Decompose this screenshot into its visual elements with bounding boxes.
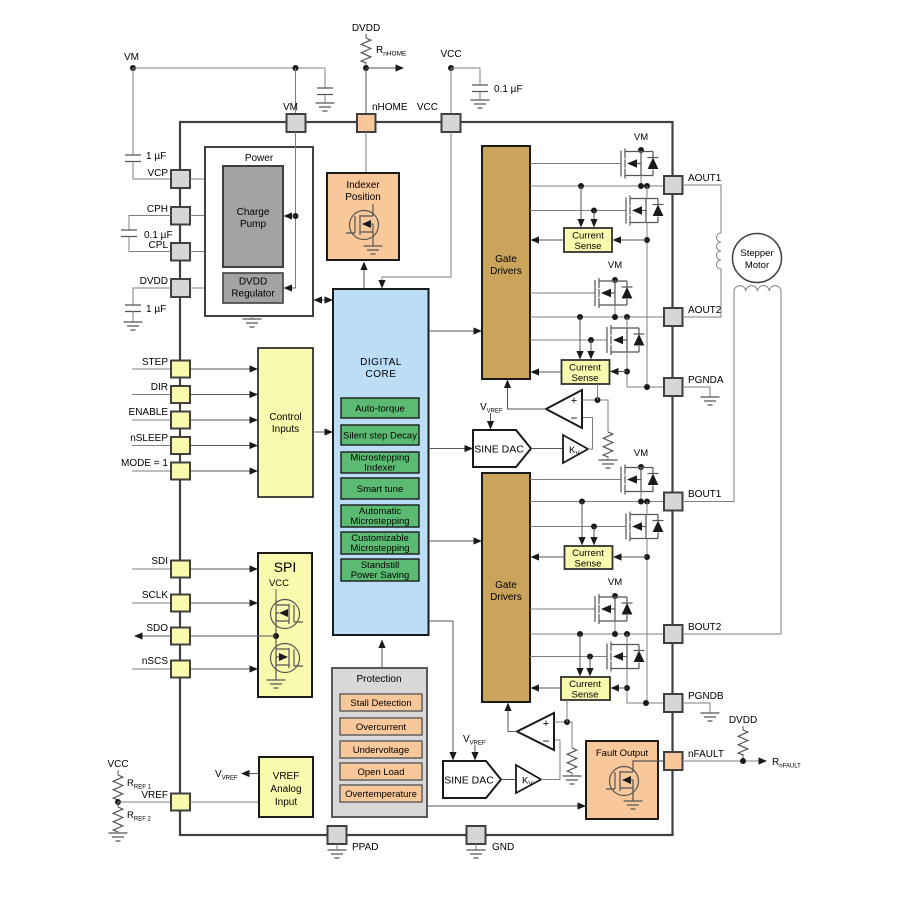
wire SCLK to SPI xyxy=(190,599,258,606)
wire comparator B plus node xyxy=(554,722,572,748)
svg-text:BOUT2: BOUT2 xyxy=(688,622,722,633)
wire gate B1 high xyxy=(530,479,621,481)
transistor indexer MOSFET xyxy=(346,204,379,246)
pin VCP xyxy=(171,170,190,188)
wire AOUT2 rail xyxy=(530,316,664,318)
current sense B2 block xyxy=(561,677,610,701)
node VM (bridge B2) xyxy=(608,577,622,599)
svg-text:DVDD: DVDD xyxy=(140,276,168,287)
transistor A2 low-side with body diode xyxy=(607,325,645,355)
svg-text:Pump: Pump xyxy=(240,219,267,230)
current sense B1 block xyxy=(565,546,613,570)
capacitor 1 uF (DVDD) xyxy=(125,304,166,322)
junction gate A2 low sense tap xyxy=(588,337,594,343)
junction PGNDB rail xyxy=(643,700,649,706)
wire STEP to control inputs xyxy=(190,365,258,372)
svg-text:Control: Control xyxy=(269,412,301,423)
svg-text:BOUT1: BOUT1 xyxy=(688,489,722,500)
wire winding A to AOUT2 xyxy=(683,269,722,317)
svg-text:Power: Power xyxy=(245,153,274,164)
wire gate B1 low xyxy=(530,526,626,528)
pin nSLEEP xyxy=(132,437,190,454)
svg-text:Stall Detection: Stall Detection xyxy=(350,698,411,709)
block Open Load xyxy=(340,763,422,780)
wire AOUT1 to motor winding A xyxy=(683,185,722,233)
ground GND pin xyxy=(467,844,486,858)
wire sense tap AOUT2 into CS-A2 xyxy=(576,317,583,360)
node VM (top-left supply) xyxy=(124,52,139,71)
transistor SPI low-side MOSFET xyxy=(271,644,304,681)
control inputs block xyxy=(258,348,313,497)
wire arrow VM into regulator xyxy=(284,284,296,291)
ground for VM bypass cap xyxy=(316,103,335,111)
wire current sense A2 to comparator plus xyxy=(597,384,599,400)
wire ENABLE to control inputs xyxy=(190,416,258,423)
wire protection to core (arrow up) xyxy=(378,640,385,669)
pin GND xyxy=(467,826,515,853)
ground PGNDA xyxy=(683,387,720,405)
junction plus node A xyxy=(595,397,601,403)
svg-text:VM: VM xyxy=(634,448,648,459)
wire sense tap BOUT1 into CS-B1 xyxy=(578,502,585,546)
svg-text:CPH: CPH xyxy=(147,204,168,215)
svg-text:Position: Position xyxy=(345,192,381,203)
junction VREF node xyxy=(115,799,121,805)
ground DVDD cap xyxy=(124,322,143,330)
svg-text:nHOME: nHOME xyxy=(372,102,408,113)
wire sense tap gate into CS-A1 xyxy=(590,211,597,228)
pin DVDD xyxy=(171,279,190,297)
svg-text:Motor: Motor xyxy=(745,260,769,271)
svg-text:nFAULT: nFAULT xyxy=(688,749,724,760)
wire B2 low drain to BOUT2 xyxy=(626,634,628,645)
wire VVREF into DAC A xyxy=(487,413,494,430)
transistor B2 high-side with body diode xyxy=(595,594,633,624)
transistor A1 high-side with body diode xyxy=(621,149,659,179)
wire VM to VM pin xyxy=(295,68,297,114)
pin STEP xyxy=(132,361,190,378)
wire current sense A2 to gate drivers xyxy=(531,368,562,375)
pin nFAULT xyxy=(664,749,724,770)
wire comparator A output to gate drivers A xyxy=(504,380,546,410)
comparator A xyxy=(546,390,582,428)
ground RREF2 xyxy=(109,833,128,841)
svg-text:DIR: DIR xyxy=(151,382,168,393)
wire VVREF into DAC B xyxy=(471,745,478,761)
svg-text:VCC: VCC xyxy=(107,759,128,770)
wire VCP to charge pump xyxy=(190,178,223,180)
wire core to gate drivers B xyxy=(429,537,483,544)
pin VM xyxy=(283,102,306,132)
pin PGNDB xyxy=(664,691,724,712)
svg-text:Overcurrent: Overcurrent xyxy=(356,722,407,733)
svg-text:Undervoltage: Undervoltage xyxy=(353,745,410,756)
svg-text:DVDD: DVDD xyxy=(239,277,267,288)
node VM (bridge A1) xyxy=(634,132,648,153)
wire DAC A to Kv A xyxy=(531,448,563,450)
wire core to SINE DAC B xyxy=(429,621,457,761)
svg-text:SPI: SPI xyxy=(274,559,297,575)
wire sense tap AOUT1 into CS-A1 xyxy=(577,186,584,228)
wire VM rail into power block xyxy=(295,132,297,288)
wire BOUT1 rail xyxy=(530,501,664,503)
charge pump block xyxy=(223,166,283,267)
transistor B1 low-side with body diode xyxy=(626,512,664,542)
block Automatic Microstepping xyxy=(341,505,419,527)
transistor A1 low-side with body diode xyxy=(626,196,664,226)
resistor DAC B reference xyxy=(567,748,577,776)
junction SDO node xyxy=(273,633,279,639)
wire VVREF output arrow xyxy=(215,769,259,782)
ground for VCC cap xyxy=(471,100,490,108)
wire current sense B1 to gate drivers xyxy=(531,553,565,560)
svg-text:ENABLE: ENABLE xyxy=(129,407,169,418)
svg-text:DVDD: DVDD xyxy=(729,715,757,726)
svg-text:Indexer: Indexer xyxy=(364,463,396,474)
svg-text:SCLK: SCLK xyxy=(142,590,168,601)
wire VREF pin to VREF analog input xyxy=(190,801,259,803)
current sense A2 block xyxy=(562,360,610,384)
junction BOUT1 dots xyxy=(579,499,650,505)
wire B2 low source down to PGNDB xyxy=(627,669,664,704)
svg-text:Stepper: Stepper xyxy=(740,248,773,259)
wire Kv B to comparator minus xyxy=(541,740,560,780)
wire A2 low drain to AOUT2 xyxy=(626,317,628,328)
svg-text:VM: VM xyxy=(124,52,139,63)
wire A2 high source to AOUT2 xyxy=(614,305,616,317)
ground PGNDB xyxy=(683,703,720,721)
svg-text:1 µF: 1 µF xyxy=(146,151,166,162)
junction gate B2 low sense tap xyxy=(587,654,593,660)
svg-text:Open Load: Open Load xyxy=(357,767,404,778)
svg-text:Protection: Protection xyxy=(356,674,401,685)
block Stall Detection xyxy=(340,694,422,711)
wire current sense A1 to gate drivers xyxy=(531,236,565,243)
fault output block xyxy=(586,741,658,819)
wire A1 low drain to AOUT1 xyxy=(646,186,648,199)
wire gate A2 low xyxy=(530,339,607,341)
current sense A1 block xyxy=(564,228,612,252)
wire core to SINE DAC A xyxy=(429,445,474,452)
wire B1 source into CS-B1 right xyxy=(613,553,647,560)
wire gate A1 high xyxy=(530,163,621,165)
stepper motor xyxy=(733,234,782,283)
wire flying cap to CPL xyxy=(129,237,171,252)
resistor RnHOME xyxy=(361,34,407,68)
svg-text:VM: VM xyxy=(608,260,622,271)
transistor B2 low-side with body diode xyxy=(607,642,645,672)
node VM (bridge A2) xyxy=(608,260,622,283)
pin BOUT2 xyxy=(664,622,722,643)
svg-text:Sense: Sense xyxy=(575,241,602,252)
pin AOUT1 xyxy=(664,173,722,194)
svg-text:0.1 µF: 0.1 µF xyxy=(494,84,523,95)
ground fault MOSFET xyxy=(624,801,643,809)
transistor fault MOSFET xyxy=(606,761,664,801)
svg-text:SDO: SDO xyxy=(146,623,168,634)
transistor SPI high-side MOSFET xyxy=(271,600,304,650)
svg-text:VCC: VCC xyxy=(417,102,438,113)
junction nHOME node xyxy=(363,65,369,71)
wire nFAULT output xyxy=(683,757,802,770)
pin SCLK xyxy=(132,595,190,612)
block Overcurrent xyxy=(340,718,422,735)
wire SDI to SPI xyxy=(190,565,258,572)
svg-text:−: − xyxy=(570,411,577,425)
svg-text:+: + xyxy=(543,718,549,730)
gate drivers B block xyxy=(482,473,530,702)
wire protection to fault output xyxy=(427,802,586,809)
svg-text:CPL: CPL xyxy=(149,240,169,251)
transistor A2 high-side with body diode xyxy=(595,278,633,308)
Power block container xyxy=(205,147,313,316)
svg-text:−: − xyxy=(542,734,549,748)
svg-text:nSLEEP: nSLEEP xyxy=(130,433,168,444)
svg-text:Gate: Gate xyxy=(495,254,517,265)
SINE DAC B xyxy=(443,761,501,798)
svg-text:Analog: Analog xyxy=(270,784,301,795)
wire winding B to BOUT2 xyxy=(683,291,782,634)
digital core block xyxy=(333,289,429,635)
svg-text:SINE DAC: SINE DAC xyxy=(474,444,524,456)
wire comparator B output to gate drivers B xyxy=(504,703,517,732)
pin PGNDA xyxy=(664,375,724,396)
ground PPAD xyxy=(328,844,347,858)
svg-text:Microstepping: Microstepping xyxy=(350,543,409,554)
wire AOUT1 rail xyxy=(530,185,664,187)
svg-text:SDI: SDI xyxy=(151,556,168,567)
wire gate A2 high xyxy=(530,292,595,294)
svg-text:Inputs: Inputs xyxy=(272,424,299,435)
pin nSCS xyxy=(132,661,190,678)
block Smart tune xyxy=(341,478,419,499)
wire A1 high source to AOUT1 xyxy=(640,176,642,187)
indexer position block xyxy=(327,173,399,260)
wire BOUT1 to motor winding B xyxy=(683,291,735,502)
junction VM above VM pin xyxy=(293,65,299,71)
svg-text:VREF: VREF xyxy=(141,790,168,801)
comparator B xyxy=(517,713,554,750)
wire nHOME pin to indexer xyxy=(365,132,367,173)
junction A2 source sense xyxy=(624,369,630,375)
wire CPH to charge pump xyxy=(190,215,223,217)
svg-text:CORE: CORE xyxy=(366,369,397,380)
svg-text:Sense: Sense xyxy=(575,559,602,570)
junction B2 source sense xyxy=(624,685,630,691)
wire sense tap gate into CS-B2 xyxy=(586,657,593,677)
wire A1 source into CS-A1 right xyxy=(613,236,648,243)
block Auto-torque xyxy=(341,398,419,418)
ground power block xyxy=(243,316,262,327)
resistor DAC A reference xyxy=(603,432,613,460)
wire comparator A plus node xyxy=(582,400,608,432)
svg-text:Drivers: Drivers xyxy=(490,266,522,277)
chip boundary xyxy=(180,122,673,835)
resistor RREF1 xyxy=(113,770,151,802)
junction VM to charge pump xyxy=(293,213,299,219)
junction gate B1 low sense tap xyxy=(591,524,597,530)
svg-text:AOUT1: AOUT1 xyxy=(688,173,722,184)
block Silent step Decay xyxy=(341,425,419,445)
wire gate A1 low xyxy=(530,210,626,212)
node VCC (top) xyxy=(440,49,461,71)
wire BOUT2 rail xyxy=(530,633,664,635)
block Customizable Microstepping xyxy=(341,532,419,554)
svg-text:Charge: Charge xyxy=(237,207,270,218)
ground resistor B xyxy=(563,776,582,784)
junction AOUT1 dots xyxy=(578,183,650,189)
svg-text:VM: VM xyxy=(283,102,298,113)
wire nHOME node to pin xyxy=(365,68,367,114)
svg-text:Power Saving: Power Saving xyxy=(351,570,410,581)
wire VCC pin down to digital core xyxy=(378,132,451,289)
SINE DAC A xyxy=(473,430,531,467)
VREF analog input block xyxy=(259,757,313,817)
wire VM to VCP cap xyxy=(132,68,134,155)
svg-text:1 µF: 1 µF xyxy=(146,304,166,315)
block Microstepping Indexer xyxy=(341,452,419,474)
svg-text:Input: Input xyxy=(275,797,297,808)
wire SDO output arrow left xyxy=(134,632,276,639)
node VM (bridge B1) xyxy=(634,448,648,470)
svg-text:DIGITAL: DIGITAL xyxy=(360,357,402,368)
svg-text:PPAD: PPAD xyxy=(352,842,379,853)
svg-text:Sense: Sense xyxy=(572,690,599,701)
svg-text:MODE = 1: MODE = 1 xyxy=(121,458,168,469)
svg-text:nSCS: nSCS xyxy=(142,656,168,667)
pin CPL xyxy=(171,243,190,261)
resistor RnFAULT pull-up xyxy=(738,726,748,761)
svg-text:Current: Current xyxy=(569,679,601,690)
gate drivers A block xyxy=(482,146,530,379)
wire A2 low source down to PGNDA xyxy=(627,352,664,387)
amplifier Kv A xyxy=(563,435,588,463)
svg-text:VCC: VCC xyxy=(269,578,289,589)
wire B1 high source to BOUT1 xyxy=(640,492,642,502)
svg-text:VCC: VCC xyxy=(440,49,461,60)
ground SPI xyxy=(267,680,286,688)
pin BOUT1 xyxy=(664,489,722,511)
wire VCC to pin xyxy=(450,68,452,114)
svg-text:+: + xyxy=(571,395,577,407)
wire CPH to flying cap xyxy=(129,216,171,231)
wire arrow VM into charge pump xyxy=(284,212,296,219)
DVDD regulator block xyxy=(223,273,283,303)
pin nHOME xyxy=(357,102,408,132)
svg-text:GND: GND xyxy=(492,842,514,853)
pin MODE xyxy=(132,463,190,480)
svg-text:STEP: STEP xyxy=(142,357,168,368)
capacitor 1 uF (VCP) xyxy=(125,151,171,179)
svg-text:Regulator: Regulator xyxy=(231,289,275,300)
pin VREF xyxy=(171,794,190,811)
wire core to gate drivers A xyxy=(429,327,483,334)
inductor winding A xyxy=(717,233,722,269)
wire nSLEEP to control inputs xyxy=(190,442,258,449)
junction gate A1 low sense tap xyxy=(591,208,597,214)
transistor B1 high-side with body diode xyxy=(621,465,659,495)
svg-text:VM: VM xyxy=(634,132,648,143)
capacitor 0.1 uF (VCC bypass) xyxy=(451,68,523,100)
wire A2 source into CS-A2 right xyxy=(610,368,627,375)
wire current sense B2 to comparator plus xyxy=(566,700,568,722)
protection block xyxy=(332,668,427,817)
wire Kv A to comparator minus xyxy=(582,418,593,450)
wire current sense B2 to gate drivers xyxy=(531,684,562,691)
pin AOUT2 xyxy=(664,305,722,326)
pin PPAD xyxy=(328,826,379,853)
svg-text:PGNDA: PGNDA xyxy=(688,375,724,386)
junction PGNDA rail xyxy=(644,384,650,390)
wire nHOME stub arrow right xyxy=(366,64,404,71)
junction BOUT2 dots xyxy=(577,631,630,637)
junction plus node B xyxy=(564,719,570,725)
svg-text:Auto-torque: Auto-torque xyxy=(355,404,405,415)
wire sense tap gate into CS-B1 xyxy=(590,527,597,546)
wire SPI VCC rail xyxy=(275,589,277,600)
wire VREF node to pin xyxy=(118,801,171,803)
block Standstill Power Saving xyxy=(341,559,419,581)
svg-text:DVDD: DVDD xyxy=(352,23,380,34)
wire DVDD to 1uF cap xyxy=(133,288,171,305)
svg-text:Drivers: Drivers xyxy=(490,592,522,603)
pin CPH xyxy=(171,207,190,225)
wire MODE to control inputs xyxy=(190,467,258,474)
svg-text:Current: Current xyxy=(572,231,604,242)
svg-text:Silent step Decay: Silent step Decay xyxy=(343,431,417,442)
wire sense tap gate into CS-A2 xyxy=(587,340,594,360)
svg-text:Fault Output: Fault Output xyxy=(596,748,649,759)
capacitor 0.1 uF flying xyxy=(121,230,173,241)
ground indexer xyxy=(364,246,383,254)
svg-text:VCP: VCP xyxy=(147,168,168,179)
svg-text:Current: Current xyxy=(572,548,604,559)
svg-text:Gate: Gate xyxy=(495,580,517,591)
amplifier Kv B xyxy=(516,765,541,793)
junction A1 source sense xyxy=(644,237,650,243)
svg-text:VM: VM xyxy=(608,577,622,588)
wire B2 high source to BOUT2 xyxy=(614,621,616,634)
wire DVDD to regulator xyxy=(190,287,223,289)
wire DAC B to Kv B xyxy=(501,779,516,781)
pin SDI xyxy=(132,561,190,578)
wire A1 low source down xyxy=(646,223,648,387)
block Overtemperature xyxy=(340,785,422,802)
svg-text:Indexer: Indexer xyxy=(346,180,380,191)
svg-text:Smart tune: Smart tune xyxy=(357,484,403,495)
wire control inputs to core xyxy=(313,428,333,435)
svg-text:AOUT2: AOUT2 xyxy=(688,305,722,316)
wire gate B2 low xyxy=(530,656,607,658)
inductor winding B xyxy=(734,286,781,291)
wire VM horizontal rail xyxy=(133,67,325,69)
capacitor VM bypass (top right of VM rail) xyxy=(317,68,333,103)
junction B1 source sense xyxy=(644,554,650,560)
wire B1 low drain to BOUT1 xyxy=(646,502,648,515)
SPI block xyxy=(258,553,312,697)
pin ENABLE xyxy=(132,412,190,429)
wire B1 low source down xyxy=(646,539,648,704)
ground resistor A xyxy=(599,460,618,468)
svg-text:PGNDB: PGNDB xyxy=(688,691,724,702)
svg-text:SINE DAC: SINE DAC xyxy=(444,775,494,787)
pin SDO xyxy=(171,628,190,645)
wire nSCS to SPI xyxy=(190,665,258,672)
wire gate B2 high xyxy=(530,608,595,610)
block Undervoltage xyxy=(340,741,422,758)
pin VCC xyxy=(417,102,461,132)
svg-text:Overtemperature: Overtemperature xyxy=(345,789,417,800)
